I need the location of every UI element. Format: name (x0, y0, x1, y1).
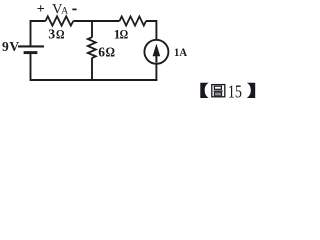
resistor R1 3 ohm zigzag (46, 16, 74, 25)
battery V1 long (+) plate (18, 45, 44, 47)
svg-text:+: + (37, 2, 45, 17)
wire: 6 ohm branch bottom stub (91, 58, 93, 80)
svg-text:Ω: Ω (56, 26, 65, 41)
figure label CJK character bottom box inner line (215, 93, 221, 95)
figure label CJK character tu (picture) outer box (212, 85, 225, 97)
svg-text:15: 15 (228, 83, 242, 102)
svg-text:1A: 1A (174, 47, 187, 59)
wire: left branch bottom (battery to bottom-left corner) (30, 54, 32, 80)
resistor R2 1 ohm zigzag (120, 16, 147, 25)
svg-text:9V: 9V (2, 39, 20, 54)
svg-text:3: 3 (48, 27, 55, 42)
svg-text:Ω: Ω (120, 26, 129, 41)
wire: top-right corner down to current source (146, 21, 156, 40)
current source I1 arrow stem (155, 54, 157, 63)
battery V1 short (-) plate (24, 51, 38, 54)
wire: top middle (3 ohm to 1 ohm through node) (73, 20, 119, 22)
figure label right lenticular bracket (247, 83, 256, 98)
minus sign of VA label (72, 8, 76, 10)
svg-text:6: 6 (98, 45, 105, 60)
figure label CJK character bottom box (214, 92, 221, 96)
wire: current source bottom to bottom-right corner (155, 64, 157, 80)
bottom wire (30, 79, 158, 81)
current source I1 arrow (pointing up) (153, 44, 161, 57)
figure label CJK character middle bar (214, 90, 223, 92)
figure label left lenticular bracket (200, 83, 209, 98)
current source I1 circle (144, 40, 168, 64)
figure label CJK character inner top square (214, 86, 221, 89)
wire: left branch top (from top-left corner down to battery) (31, 21, 46, 46)
svg-text:VA: VA (52, 1, 68, 17)
resistor R3 6 ohm vertical zigzag (88, 37, 96, 58)
node: 6 ohm branch T-junction stub (91, 21, 93, 37)
svg-text:Ω: Ω (106, 45, 116, 60)
